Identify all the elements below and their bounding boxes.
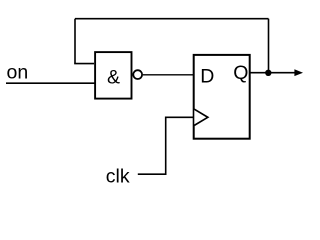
D flip-flop U2 body [194, 55, 250, 139]
D flip-flop clock edge triangle [194, 109, 208, 125]
output arrowhead [294, 69, 303, 76]
svg-text:Q: Q [233, 62, 248, 84]
svg-text:on: on [7, 62, 29, 84]
wire: NAND output to D input of flip-flop [143, 74, 193, 76]
svg-text:&: & [107, 67, 120, 89]
wire: vertical from output node up to feedback [268, 19, 270, 73]
svg-text:D: D [200, 65, 214, 87]
NAND gate U1 output inversion bubble [133, 70, 142, 79]
wire: feedback left vertical segment [74, 19, 76, 64]
wire: feedback horizontal into NAND upper input [74, 63, 94, 65]
wire: feedback top horizontal from node Q back toward NAND input [75, 18, 269, 20]
wire: clk input (up and into flip-flop clock pin) [138, 117, 193, 174]
wire: Q output to the right [250, 72, 297, 74]
svg-text:clk: clk [106, 166, 130, 188]
NAND gate U1 body (IEC symbol box) [95, 52, 131, 99]
wire: input "on" to NAND lower input [6, 82, 95, 84]
junction dot at output node [265, 70, 271, 76]
